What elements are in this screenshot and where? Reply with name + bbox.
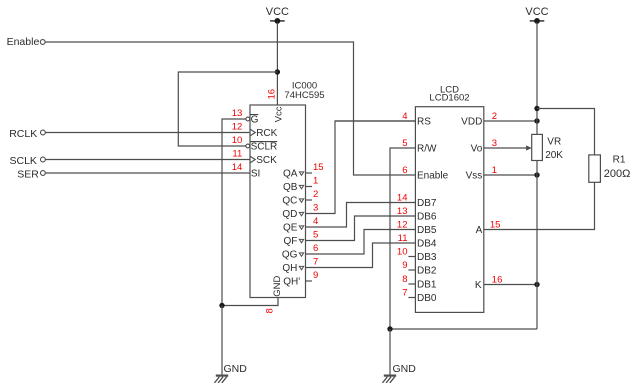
svg-text:1: 1: [313, 176, 318, 187]
svg-text:Vcc: Vcc: [274, 106, 285, 122]
svg-text:SCK: SCK: [256, 155, 277, 166]
port SER (input connector): [17, 168, 39, 180]
ground symbol (left): [214, 376, 228, 383]
svg-text:GND: GND: [393, 363, 417, 375]
wire VCC rail down to IC000 pin 16: [276, 23, 278, 106]
svg-text:QG: QG: [282, 250, 298, 261]
node junction middle ground: [387, 326, 392, 331]
svg-text:QB: QB: [283, 182, 298, 193]
wire A to R1 bottom: [484, 182, 595, 229]
svg-text:3: 3: [313, 203, 318, 214]
wire K to ground rail: [484, 284, 537, 286]
svg-text:20K: 20K: [545, 150, 563, 161]
svg-text:VDD: VDD: [461, 117, 482, 128]
svg-text:K: K: [475, 280, 482, 291]
svg-text:10: 10: [232, 135, 243, 146]
wire QE to LCD (net via x=346.5): [306, 203, 416, 228]
wire SER to SI pin 14: [45, 172, 250, 174]
svg-text:2: 2: [313, 189, 318, 200]
svg-text:QD: QD: [282, 209, 297, 220]
svg-text:12: 12: [232, 122, 243, 133]
wire VCC rail down to potentiometer top: [536, 23, 538, 135]
svg-text:QH': QH': [283, 277, 300, 288]
wire left ground drop: [221, 306, 223, 376]
stub wire DB2: [408, 269, 415, 271]
svg-text:5: 5: [402, 138, 407, 149]
svg-text:SCLR: SCLR: [251, 142, 278, 153]
svg-text:74HC595: 74HC595: [284, 90, 324, 101]
svg-text:QH: QH: [282, 263, 297, 274]
power symbol VCC (left, feeds 74HC595 pin 16): [266, 6, 289, 24]
svg-text:6: 6: [313, 243, 318, 254]
wire RS to QD vertical: [335, 120, 415, 122]
wire QG to LCD (net via x=364.0): [306, 230, 416, 255]
ground symbol (middle): [382, 376, 396, 383]
svg-text:14: 14: [397, 193, 408, 204]
svg-text:G: G: [251, 115, 259, 126]
svg-text:200Ω: 200Ω: [604, 168, 631, 180]
wire IC000 pin 8 to ground junction: [222, 298, 278, 306]
svg-text:8: 8: [402, 274, 407, 285]
svg-text:DB1: DB1: [417, 280, 437, 291]
svg-text:DB4: DB4: [417, 239, 437, 250]
svg-text:RCK: RCK: [256, 128, 277, 139]
svg-text:QE: QE: [283, 223, 298, 234]
svg-text:DB6: DB6: [417, 212, 437, 223]
svg-text:7: 7: [313, 257, 318, 268]
svg-text:VCC: VCC: [525, 6, 548, 18]
svg-text:A: A: [476, 225, 483, 236]
svg-text:15: 15: [490, 220, 501, 231]
node junction R1 branch on VCC rail: [534, 106, 539, 111]
svg-text:11: 11: [232, 149, 242, 160]
wire QD to LCD (net via x=335.0): [306, 121, 416, 214]
IC U1 74HC595 body (IC000): [250, 105, 306, 298]
svg-text:RCLK: RCLK: [9, 128, 37, 140]
wire SCLR tie-high branch: left then down to SCLR pin: [178, 72, 277, 146]
svg-text:6: 6: [402, 165, 407, 176]
port Enable (input connector): [7, 36, 40, 48]
power symbol VCC (right): [525, 6, 548, 24]
bubble on pin 10: [246, 144, 250, 148]
wire G pin to ground rail: [222, 119, 246, 306]
svg-text:DB5: DB5: [417, 225, 437, 236]
svg-text:Vss: Vss: [466, 171, 483, 182]
port SCLK (input connector): [10, 155, 37, 167]
terminal circle RCLK: [41, 130, 46, 135]
node junction VDD / VCC rail: [534, 118, 539, 123]
terminal circle Enable: [40, 40, 45, 45]
svg-text:GND: GND: [224, 363, 248, 375]
svg-text:4: 4: [313, 216, 318, 227]
svg-text:4: 4: [402, 111, 407, 122]
svg-text:Enable: Enable: [417, 171, 449, 182]
wire Vss to ground rail: [484, 174, 537, 176]
svg-text:VCC: VCC: [266, 6, 289, 18]
wire SCLK to SCK pin 11: [45, 159, 250, 161]
wire VDD to VCC rail: [484, 120, 537, 122]
clock triangle pin 11: [250, 156, 255, 163]
stub wire DB1: [408, 283, 415, 285]
wire Vo to potentiometer wiper with arrow: [484, 147, 527, 149]
terminal circle SER: [41, 171, 46, 176]
svg-text:13: 13: [397, 206, 408, 217]
node junction K / ground rail: [534, 282, 539, 287]
svg-text:DB2: DB2: [417, 266, 437, 277]
svg-text:DB3: DB3: [417, 252, 437, 263]
svg-text:8: 8: [264, 308, 275, 313]
svg-text:11: 11: [398, 233, 408, 244]
port RCLK (input connector): [9, 128, 37, 140]
node junction left ground: [219, 303, 224, 308]
wire QH to LCD (net via x=372.5): [306, 243, 416, 268]
svg-text:R/W: R/W: [417, 144, 437, 155]
svg-text:VR: VR: [547, 136, 561, 147]
svg-text:9: 9: [313, 270, 318, 281]
stub wire QC: [306, 199, 313, 201]
terminal circle SCLK: [41, 157, 46, 162]
svg-text:Vo: Vo: [471, 144, 483, 155]
IC U2 LCD1602 body (LCD): [415, 107, 483, 313]
svg-text:13: 13: [232, 108, 243, 119]
wire RCLK to RCK pin 12: [45, 132, 250, 134]
svg-text:3: 3: [492, 138, 497, 149]
svg-text:QA: QA: [283, 169, 298, 180]
svg-text:2: 2: [492, 111, 497, 122]
svg-text:R1: R1: [613, 155, 626, 166]
clock triangle pin 12: [250, 129, 255, 136]
svg-text:Enable: Enable: [7, 36, 40, 48]
wire middle ground drop: [389, 329, 391, 375]
node junction Vss / ground rail: [534, 172, 539, 177]
wire Enable net: right then down to LCD pin 6: [45, 42, 415, 175]
svg-text:DB7: DB7: [417, 198, 437, 209]
svg-text:SI: SI: [251, 169, 260, 180]
stub wire DB3: [408, 256, 415, 258]
svg-text:1: 1: [492, 165, 497, 176]
svg-text:12: 12: [397, 220, 408, 231]
wire potentiometer bottom to ground rail: [536, 161, 538, 330]
svg-text:10: 10: [397, 247, 408, 258]
stub wire QB: [306, 186, 313, 188]
svg-text:SER: SER: [17, 168, 39, 180]
svg-text:DB0: DB0: [417, 293, 437, 304]
resistor R1 200ohm body: [589, 155, 601, 182]
stub wire QA: [306, 172, 313, 174]
svg-text:15: 15: [313, 162, 324, 173]
potentiometer VR 20K body: [532, 134, 543, 160]
wire R/W to ground rail: [390, 148, 415, 329]
svg-text:SCLK: SCLK: [10, 155, 37, 167]
stub wire DB0: [408, 297, 415, 299]
wire R1 branch: right and down to R1 top: [537, 109, 595, 155]
svg-text:16: 16: [492, 275, 503, 286]
svg-text:LCD1602: LCD1602: [429, 93, 469, 104]
svg-text:GND: GND: [272, 276, 283, 297]
pin 10 SCLR (active low) with bubble: [250, 142, 277, 153]
wire bottom ground bus from middle junction to right rail: [390, 328, 537, 330]
svg-text:7: 7: [402, 288, 407, 299]
svg-text:16: 16: [266, 89, 277, 100]
svg-text:QC: QC: [282, 196, 297, 207]
bubble on pin 13: [246, 117, 250, 121]
pin 13 G (output enable, active low) with bubble: [250, 115, 258, 126]
svg-text:5: 5: [313, 230, 318, 241]
stub wire QH': [306, 280, 313, 282]
svg-text:9: 9: [402, 260, 407, 271]
svg-text:RS: RS: [417, 117, 431, 128]
svg-text:QF: QF: [284, 236, 298, 247]
wire QF to LCD (net via x=354.5): [306, 216, 416, 241]
node junction on VCC rail (SCLR tie-high branch): [275, 69, 280, 74]
svg-text:14: 14: [232, 162, 243, 173]
